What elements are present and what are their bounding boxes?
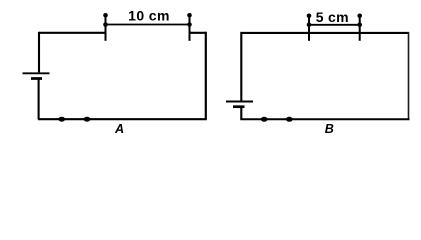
svg-text:5 cm: 5 cm [316, 9, 349, 25]
svg-text:B: B [325, 122, 334, 136]
svg-text:A: A [114, 122, 124, 136]
svg-text:10 cm: 10 cm [128, 7, 170, 23]
